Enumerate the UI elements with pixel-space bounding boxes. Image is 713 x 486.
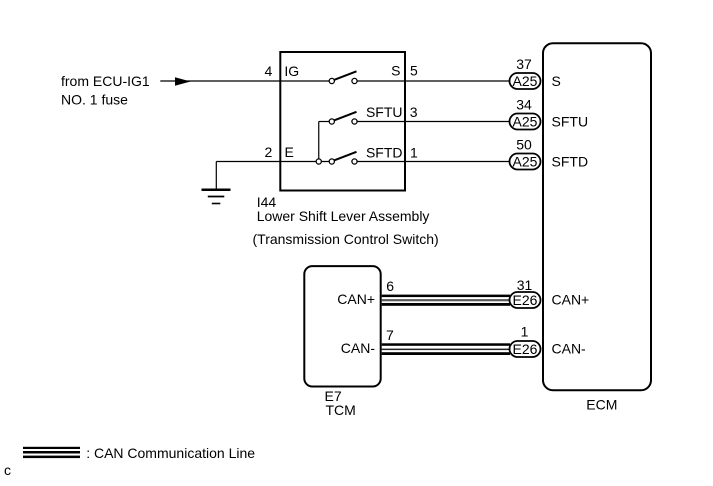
svg-text:SFTD: SFTD <box>552 154 589 170</box>
legend CAN line symbol <box>23 447 80 458</box>
switch IG-S blade <box>334 71 357 80</box>
svg-text:2: 2 <box>265 144 273 160</box>
legend text CAN Communication Line <box>86 445 255 461</box>
connector E26 pin 31 <box>510 277 541 308</box>
svg-text:E: E <box>285 144 294 160</box>
label E <box>285 144 294 160</box>
svg-text:4: 4 <box>265 63 273 79</box>
label I44 Lower Shift Lever Assembly <box>257 194 430 224</box>
svg-text:A25: A25 <box>513 114 538 130</box>
svg-text:ECM: ECM <box>586 397 617 413</box>
wire S to A25 <box>355 80 511 82</box>
svg-text:CAN+: CAN+ <box>552 292 590 308</box>
svg-text:S: S <box>552 73 561 89</box>
pin 3 <box>410 104 418 120</box>
connector A25 pin 50 <box>510 137 541 170</box>
wire to ground <box>215 162 217 190</box>
svg-text:6: 6 <box>386 278 394 294</box>
switch SFTD contacts and junction node <box>316 159 357 164</box>
svg-text:50: 50 <box>516 137 532 153</box>
label CAN+ (TCM) <box>337 291 375 307</box>
switch SFTU blade <box>334 112 357 121</box>
svg-text:1: 1 <box>410 145 418 161</box>
pin 6 <box>386 278 394 294</box>
CAN- bus wire (triple line) <box>382 343 510 355</box>
connector E26 pin 1 <box>510 324 541 358</box>
svg-text:SFTU: SFTU <box>366 104 403 120</box>
svg-text:CAN-: CAN- <box>552 341 587 357</box>
wire from fuse to IG pin <box>160 80 331 82</box>
ground <box>202 190 231 204</box>
svg-text:S: S <box>391 63 400 79</box>
svg-text:SFTD: SFTD <box>366 145 403 161</box>
svg-text:E26: E26 <box>513 341 538 357</box>
switch SFTD blade <box>334 152 357 161</box>
svg-text:: CAN Communication Line: : CAN Communication Line <box>86 445 255 461</box>
TCM box E7 <box>304 266 380 386</box>
label SFTU (ECM) <box>552 114 589 130</box>
connector A25 pin 34 <box>510 97 541 130</box>
pin 2 <box>265 144 273 160</box>
svg-text:31: 31 <box>517 277 533 293</box>
svg-text:(Transmission Control Switch): (Transmission Control Switch) <box>253 231 439 247</box>
label ECM <box>586 397 617 413</box>
svg-text:34: 34 <box>516 97 532 113</box>
wire vertical E branch <box>318 122 320 162</box>
svg-text:c: c <box>4 462 11 478</box>
svg-text:IG: IG <box>284 63 299 79</box>
svg-text:CAN-: CAN- <box>341 340 376 356</box>
page marker c <box>4 462 11 478</box>
wire E to junction <box>216 161 331 163</box>
svg-text:37: 37 <box>516 56 532 72</box>
label IG <box>284 63 299 79</box>
label SFTU (switch box) <box>366 104 403 120</box>
label SFTD (ECM) <box>552 154 589 170</box>
svg-text:A25: A25 <box>513 154 538 170</box>
wire SFTU to A25 <box>355 121 511 123</box>
wire SFTU stub <box>319 121 332 123</box>
label E7 TCM <box>325 388 356 418</box>
svg-text:Lower Shift Lever Assembly: Lower Shift Lever Assembly <box>257 208 430 224</box>
label from ECU-IG1 NO. 1 fuse <box>61 73 150 108</box>
CAN+ bus wire (triple line) <box>382 295 510 306</box>
svg-text:3: 3 <box>410 104 418 120</box>
svg-text:CAN+: CAN+ <box>337 291 375 307</box>
svg-text:NO. 1 fuse: NO. 1 fuse <box>61 92 128 108</box>
pin 1 <box>410 145 418 161</box>
svg-text:E26: E26 <box>513 292 538 308</box>
label CAN- (ECM) <box>552 341 587 357</box>
label SFTD (switch box) <box>366 145 403 161</box>
label S (ECM) <box>552 73 561 89</box>
svg-text:7: 7 <box>386 327 394 343</box>
svg-text:5: 5 <box>410 63 418 79</box>
svg-text:SFTU: SFTU <box>552 114 589 130</box>
svg-text:1: 1 <box>521 324 529 340</box>
svg-text:from ECU-IG1: from ECU-IG1 <box>61 73 150 89</box>
label (Transmission Control Switch) <box>253 231 439 247</box>
label CAN+ (ECM) <box>552 292 590 308</box>
switch IG-S contacts <box>329 78 357 83</box>
connector A25 pin 37 <box>510 56 541 89</box>
pin 5 <box>410 63 418 79</box>
pin 4 <box>265 63 273 79</box>
label CAN- (TCM) <box>341 340 376 356</box>
switch SFTU contacts <box>329 119 357 124</box>
svg-text:TCM: TCM <box>326 402 356 418</box>
ECM box <box>543 43 651 390</box>
pin 7 <box>386 327 394 343</box>
switch box I44 <box>280 52 405 191</box>
wire SFTD to A25 <box>355 161 511 163</box>
arrow head on fuse wire <box>175 77 191 86</box>
svg-text:A25: A25 <box>513 73 538 89</box>
label S (switch box) <box>391 63 400 79</box>
